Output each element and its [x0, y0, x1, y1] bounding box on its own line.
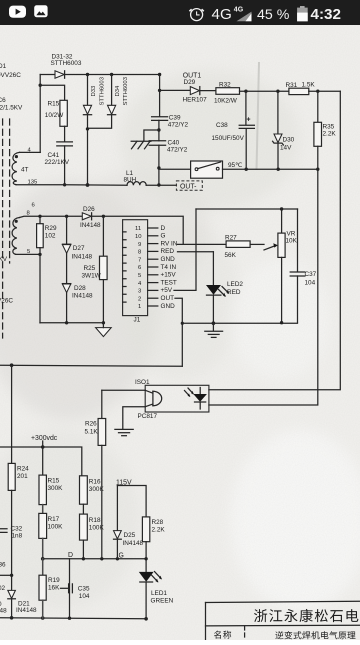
wire 115V loop top — [117, 486, 146, 517]
svg-text:56K: 56K — [225, 252, 237, 259]
junction R26 — [100, 557, 103, 560]
capacitor C32 1n8 — [0, 526, 23, 540]
junction C38 bottom — [245, 168, 248, 171]
svg-text:+15V: +15V — [161, 272, 177, 279]
wire R18 to node D rail — [82, 540, 84, 559]
svg-text:14V: 14V — [280, 145, 292, 152]
junction OUT branch — [181, 322, 184, 325]
wire R24 down — [11, 490, 13, 590]
svg-text:LED2: LED2 — [227, 281, 243, 288]
svg-text:R24: R24 — [17, 465, 29, 472]
svg-text:10: 10 — [135, 234, 142, 240]
svg-text:472/Y2: 472/Y2 — [168, 122, 189, 129]
svg-text:95℃: 95℃ — [228, 162, 242, 169]
svg-text:+300vdc: +300vdc — [31, 435, 58, 442]
LED1 GREEN — [139, 572, 174, 619]
OUT- terminal — [176, 181, 202, 191]
svg-text:C41: C41 — [48, 152, 60, 159]
wire C39 to C40 — [158, 120, 160, 140]
junction x11.6 — [10, 363, 14, 367]
junction LED2 ground — [212, 321, 216, 325]
diode D21 IN4148 — [8, 590, 37, 618]
junction top rail right end — [158, 73, 161, 76]
junction rail x111.6 — [110, 73, 113, 76]
svg-text:16K: 16K — [48, 584, 60, 591]
svg-text:11: 11 — [135, 226, 141, 232]
svg-text:C35: C35 — [78, 586, 90, 593]
svg-text:9: 9 — [138, 242, 141, 248]
svg-text:150UF/50V: 150UF/50V — [212, 135, 245, 142]
svg-text:KV: KV — [0, 256, 8, 263]
svg-text:R16: R16 — [89, 478, 101, 485]
resistor R35 2.2K — [314, 91, 336, 169]
svg-text:VR: VR — [287, 230, 296, 237]
title text company — [254, 609, 267, 622]
svg-text:C37: C37 — [305, 271, 317, 278]
svg-text:IN4148: IN4148 — [80, 222, 101, 229]
junction VR top — [280, 207, 283, 210]
wire RV IN row to R27 — [177, 243, 226, 245]
resistor R16 300K — [80, 476, 105, 504]
transformer primary winding 4T — [12, 148, 40, 186]
svg-text:100K: 100K — [89, 524, 105, 531]
junction rail x87.5 — [86, 73, 89, 76]
resistor R24 201 — [8, 365, 29, 490]
resistor R15 10/2W — [45, 100, 68, 126]
wire C40 down — [158, 145, 160, 185]
wire R16 to R18 — [82, 504, 84, 514]
wire right vertical A x318 — [209, 169, 318, 405]
junction C38 top — [244, 90, 247, 93]
diode D25 IN4148 — [114, 531, 144, 559]
wire R27 to wiper arrow — [250, 243, 264, 245]
svg-text:10K: 10K — [286, 237, 298, 244]
svg-text:D30: D30 — [283, 136, 295, 143]
svg-text:R28: R28 — [152, 519, 164, 526]
diode D26 IN4148 — [80, 206, 101, 229]
svg-text:D28: D28 — [74, 285, 86, 292]
diode D34 — [88, 75, 129, 129]
svg-text:5.1K: 5.1K — [85, 429, 99, 436]
svg-text:STTH6003: STTH6003 — [51, 60, 82, 67]
svg-text:148: 148 — [0, 608, 7, 615]
optocoupler ISO1 PC817 — [135, 379, 209, 420]
svg-text:OUT-: OUT- — [180, 184, 196, 191]
svg-text:2.2K: 2.2K — [152, 526, 166, 533]
resistor R31 1.5K — [286, 81, 316, 94]
wire to chassis ground — [144, 130, 159, 141]
inductor L1 8UH — [124, 170, 177, 185]
svg-text:R15: R15 — [48, 477, 60, 484]
ground triangle — [96, 328, 112, 337]
svg-text:10/2W: 10/2W — [45, 112, 64, 119]
wire long rail y365 — [0, 365, 182, 366]
svg-text:R35: R35 — [323, 123, 335, 130]
pin 6 stub T4 IN — [148, 264, 177, 271]
label +300vdc — [31, 435, 58, 447]
resistor R32 10K2/W — [214, 81, 240, 104]
earth ground ISO1 — [115, 429, 133, 435]
junction switch branch — [157, 166, 160, 169]
pin 8 stub RED — [148, 248, 175, 255]
capacitor C35 104 — [61, 559, 90, 618]
capacitor C40 472/Y2 — [149, 139, 188, 153]
junction bottom rail x158.9 — [157, 183, 160, 186]
wire gnd rail y322.8 — [40, 322, 103, 324]
svg-text:C39: C39 — [169, 114, 181, 121]
svg-text:R18: R18 — [89, 517, 101, 524]
title block border — [206, 601, 360, 640]
resistor R19 16K — [39, 559, 60, 618]
wire +5V row to vertical — [174, 209, 196, 290]
wire top row y216 — [40, 215, 82, 217]
node D rail y558.8 — [43, 558, 146, 560]
capacitor C39 472/Y2 — [152, 114, 189, 128]
svg-text:22/1.5KV: 22/1.5KV — [0, 105, 23, 112]
svg-text:+5V: +5V — [161, 287, 173, 294]
svg-text:C6: C6 — [0, 97, 6, 104]
resistor R26 5.1K — [85, 390, 106, 559]
svg-text:PC817: PC817 — [138, 413, 158, 420]
svg-text:IN4148: IN4148 — [72, 254, 93, 261]
LED2 RED — [206, 252, 243, 323]
svg-text:R32: R32 — [219, 81, 231, 88]
pin 11 stub D — [148, 225, 166, 232]
svg-text:R25: R25 — [84, 265, 96, 272]
wire R15 to C41 — [64, 126, 66, 141]
wire branch to R15 — [40, 85, 64, 100]
svg-text:GND: GND — [161, 256, 176, 263]
svg-text:R29: R29 — [45, 225, 57, 232]
svg-text:GND: GND — [161, 303, 176, 310]
junction D33 D34 — [86, 127, 89, 130]
svg-text:102: 102 — [45, 232, 56, 239]
svg-text:V26C: V26C — [0, 298, 13, 305]
resistor R29 102 — [37, 216, 57, 254]
svg-text:201: 201 — [17, 473, 28, 480]
stub left y575 — [0, 574, 12, 576]
svg-text:ISO1: ISO1 — [135, 379, 150, 386]
junction D21 bottom — [10, 616, 14, 620]
svg-text:D29: D29 — [184, 79, 196, 86]
svg-text:R26: R26 — [85, 421, 97, 428]
svg-text:STTH6003: STTH6003 — [100, 76, 106, 105]
wire x40 down to gnd rail — [39, 254, 41, 322]
svg-text:104: 104 — [305, 280, 316, 287]
connector J1 — [123, 220, 148, 324]
diode D27 IN4148 — [62, 216, 92, 283]
wire switch to right rail — [223, 168, 319, 170]
svg-text:D34: D34 — [115, 85, 121, 97]
capacitor C41 222/1KV — [45, 142, 73, 166]
transformer feedback winding — [12, 203, 40, 255]
svg-text:T4 IN: T4 IN — [161, 264, 177, 271]
svg-text:7: 7 — [138, 257, 141, 263]
scan crease line — [257, 62, 260, 170]
junction LED1 bottom — [144, 617, 148, 621]
resistor R17 100K — [39, 513, 63, 538]
wire vertical x40 pin4 to rail — [39, 75, 41, 153]
signal strength triangle — [237, 12, 252, 22]
junction D28 bottom — [65, 321, 68, 324]
zener D30 14V — [273, 91, 295, 169]
svg-text:1n8: 1n8 — [12, 533, 23, 540]
svg-text:C32: C32 — [11, 526, 23, 533]
wire top rail y74.5 — [40, 74, 55, 76]
svg-text:RED: RED — [161, 248, 175, 255]
svg-text:RED: RED — [227, 289, 241, 296]
capacitor C38 150UF/50V — [212, 91, 255, 169]
potentiometer VR 10K — [264, 209, 298, 323]
svg-text:4G: 4G — [234, 7, 244, 14]
transformer core dashed line left — [2, 119, 4, 338]
transformer core dashed line right — [9, 119, 11, 263]
junction chassis branch — [157, 128, 160, 131]
svg-text:D33: D33 — [91, 85, 97, 97]
junction R29 bottom — [38, 253, 41, 256]
svg-text:100K: 100K — [48, 523, 64, 530]
svg-text:D27: D27 — [73, 245, 85, 252]
resistor R18 100K — [80, 514, 105, 540]
wire R17 to node D — [42, 538, 44, 558]
pin 2 stub OUT — [148, 295, 174, 302]
svg-text:104: 104 — [79, 593, 90, 600]
svg-text:R17: R17 — [48, 516, 60, 523]
svg-text:+: + — [247, 117, 251, 124]
wire OUT row down — [175, 298, 182, 366]
svg-text:0VV26C: 0VV26C — [0, 72, 21, 79]
junction D25 — [116, 557, 119, 560]
wire ISO1 left top to R26 — [102, 389, 145, 391]
wire R32 to R31 — [240, 90, 289, 92]
diode D29 HER107 — [160, 79, 216, 103]
wire lower bus y323 — [182, 322, 297, 324]
junction R35 bottom — [316, 168, 319, 171]
junction D30 bottom — [277, 168, 280, 171]
resistor R15 300K — [39, 475, 63, 505]
svg-text:300K: 300K — [89, 486, 105, 493]
junction y575 — [10, 574, 13, 577]
svg-text:1: 1 — [138, 304, 141, 310]
svg-text:G: G — [161, 233, 166, 240]
wire right vertical B x340 — [209, 91, 340, 390]
junction C35 bottom — [68, 617, 71, 620]
junction C41 bottom — [63, 183, 66, 186]
svg-text:D1: D1 — [0, 63, 7, 70]
svg-text:R31: R31 — [286, 82, 298, 89]
svg-text:HER107: HER107 — [183, 97, 208, 104]
svg-text:STTH6003: STTH6003 — [123, 76, 129, 105]
wire RED row to LED2 — [178, 251, 214, 253]
resistor R28 2.2K — [142, 517, 165, 572]
svg-text:IN4148: IN4148 — [16, 607, 37, 614]
node junction x40 y85 — [39, 84, 42, 87]
resistor R25 3W1W — [82, 216, 108, 322]
svg-text:G: G — [119, 553, 124, 560]
wire R31 to right corner — [309, 90, 341, 92]
pin 10 stub G — [148, 233, 166, 240]
svg-text:36: 36 — [0, 562, 6, 569]
wire D33 D34 down to bottom rail — [87, 129, 89, 185]
wire upper bus y209 — [196, 208, 298, 210]
svg-text:472/Y2: 472/Y2 — [167, 147, 188, 154]
youtube app icon — [9, 6, 26, 18]
junction D29 branch — [158, 89, 161, 92]
wire bottom rail y185 — [16, 184, 127, 186]
svg-text:D: D — [68, 552, 73, 559]
svg-text:3W1W: 3W1W — [82, 272, 102, 279]
junction R35 top — [316, 90, 319, 93]
svg-text:R27: R27 — [225, 235, 237, 242]
diode D31-32 — [51, 53, 82, 78]
junction R18 — [82, 557, 85, 560]
junction R25 top — [102, 215, 105, 218]
svg-text:4T: 4T — [21, 166, 29, 173]
junction D27 top — [65, 215, 68, 218]
junction winding top x40 — [38, 215, 41, 218]
svg-text:J1: J1 — [134, 317, 141, 324]
svg-text:300K: 300K — [48, 485, 64, 492]
wire to thermal switch — [159, 168, 191, 170]
pin 7 stub GND — [148, 256, 175, 263]
wire winding bottom y254 — [16, 253, 41, 255]
bottom rail y618 — [0, 618, 146, 619]
junction R28 node rail — [144, 557, 147, 560]
svg-text:LED1: LED1 — [151, 590, 167, 597]
pin 4 stub TEST — [148, 279, 177, 286]
pin 1 stub GND — [148, 303, 175, 310]
svg-text:D26: D26 — [83, 206, 95, 213]
capacitor C37 104 — [290, 209, 316, 322]
svg-text:TEST: TEST — [161, 279, 177, 286]
chassis ground — [131, 141, 151, 149]
junction node D left — [41, 557, 45, 561]
svg-text:2.2K: 2.2K — [323, 130, 337, 137]
wire C41 to bottom rail — [64, 146, 66, 185]
svg-text:10K2/W: 10K2/W — [214, 97, 238, 104]
svg-text:D: D — [161, 225, 166, 232]
wire ISO1 left bottom to ground — [123, 407, 145, 429]
svg-text:2: 2 — [138, 296, 141, 302]
thermal switch 95C — [191, 161, 243, 178]
svg-text:C38: C38 — [216, 122, 228, 129]
wire x42.7 down — [42, 447, 44, 475]
wire x159.5 down — [159, 75, 161, 117]
svg-text:R15: R15 — [48, 100, 60, 107]
pin 9 stub RV IN — [148, 240, 178, 247]
junction +300vdc — [41, 445, 45, 449]
battery icon — [297, 6, 308, 21]
svg-text:D25: D25 — [124, 532, 136, 539]
svg-text:02: 02 — [0, 585, 6, 592]
status bar — [0, 0, 360, 25]
svg-text:GREEN: GREEN — [151, 597, 174, 604]
svg-text:R19: R19 — [48, 577, 60, 584]
wire R15 to R17 — [42, 505, 44, 514]
diode D28 IN4148 — [62, 284, 93, 323]
title row description — [275, 631, 283, 639]
svg-text:1.5K: 1.5K — [302, 81, 316, 88]
wire 115V left leg — [116, 486, 118, 531]
diode D33 — [83, 75, 105, 129]
svg-text:OUT: OUT — [161, 295, 175, 302]
gallery app icon — [34, 5, 47, 17]
alarm clock icon — [189, 9, 203, 21]
pin 3 stub +5V — [148, 287, 173, 294]
junction R19 bottom — [41, 616, 45, 620]
junction VR bottom — [280, 321, 283, 324]
svg-text:222/1KV: 222/1KV — [45, 159, 70, 166]
svg-text:RV IN: RV IN — [161, 240, 178, 247]
svg-text:C40: C40 — [168, 139, 180, 146]
title row name — [214, 631, 221, 639]
junction D30 top — [276, 90, 279, 93]
svg-text:8UH: 8UH — [124, 176, 137, 183]
resistor R27 56K — [225, 235, 251, 259]
pin 5 stub +15V — [148, 272, 177, 279]
earth ground LED2 — [205, 323, 223, 337]
wire +300vdc rail — [0, 447, 82, 476]
wire D26 to corner x183 — [92, 216, 184, 244]
svg-text:IN4148: IN4148 — [123, 540, 144, 547]
svg-text:IN4148: IN4148 — [72, 292, 93, 299]
junction R25 bottom — [102, 321, 105, 324]
